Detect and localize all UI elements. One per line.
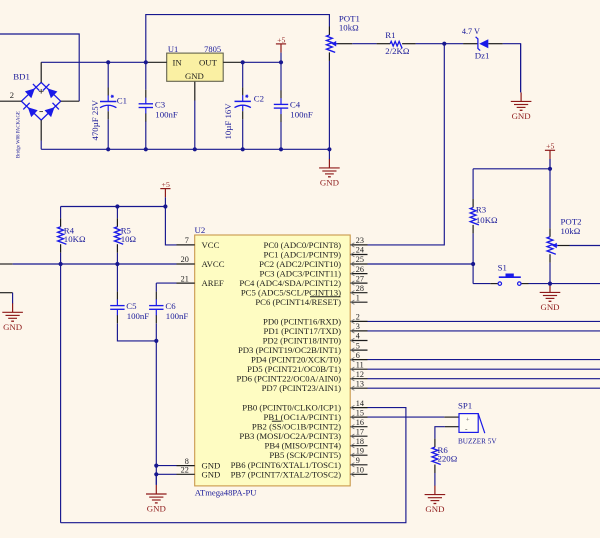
svg-text:17: 17	[356, 427, 364, 436]
svg-text:PB7 (PCINT7/XTAL2/TOSC2): PB7 (PCINT7/XTAL2/TOSC2)	[231, 469, 342, 479]
svg-text:C4: C4	[290, 100, 301, 110]
U2 pin 19 PB5	[269, 446, 367, 460]
capacitor C3 100nF	[139, 62, 178, 149]
op-amp U2 body ATmega48PA-PU	[195, 225, 351, 497]
wire R3 column	[472, 169, 474, 284]
ground R6	[425, 486, 446, 515]
svg-text:PD0 (PCINT16/RXD): PD0 (PCINT16/RXD)	[263, 316, 341, 326]
svg-text:PB2 (SS/OC1B/PCINT2): PB2 (SS/OC1B/PCINT2)	[252, 422, 341, 432]
U2 pin 10 PB7	[231, 466, 368, 480]
svg-text:PC1 (ADC1/PCINT9): PC1 (ADC1/PCINT9)	[264, 250, 342, 260]
svg-text:BD1: BD1	[13, 72, 30, 82]
svg-text:5: 5	[356, 341, 360, 350]
svg-text:C1: C1	[117, 95, 127, 105]
wire unregulated rail to U1 IN	[41, 61, 146, 63]
svg-text:100nF: 100nF	[155, 109, 178, 119]
wire R1 to Dz1	[416, 43, 464, 45]
svg-text:GND: GND	[3, 322, 22, 332]
capacitor C2 10uF 16V	[223, 62, 264, 149]
svg-text:GND: GND	[320, 178, 339, 188]
svg-text:+: +	[466, 416, 470, 423]
wire R6 to GND	[434, 473, 436, 486]
U2 pin 11 PD5	[247, 360, 367, 374]
buzzer SP1	[458, 400, 497, 445]
wire junction dots	[59, 42, 553, 477]
svg-text:OUT: OUT	[199, 57, 218, 67]
U2 pin 6 PD4	[251, 351, 368, 365]
svg-text:10KΩ: 10KΩ	[476, 215, 498, 225]
wire PD4 to right edge	[368, 359, 600, 361]
U2 pin 14 PB0	[242, 399, 367, 413]
zener diode Dz1 4.7V	[462, 27, 503, 60]
svg-text:PB4 (MISO/PCINT4): PB4 (MISO/PCINT4)	[264, 441, 341, 451]
capacitor C5 100nF	[110, 264, 149, 323]
U2 pin 25 PC2	[259, 255, 367, 269]
U2 pin 5 PD3	[238, 341, 368, 355]
U2 pin 15 PB1	[264, 408, 368, 422]
svg-text:AREF: AREF	[202, 278, 224, 288]
ground left edge	[2, 303, 23, 332]
wire U1 GND pin to rail	[194, 81, 196, 149]
wire SP1 minus to R6	[435, 427, 459, 439]
svg-text:PC4 (ADC4/SDA/PCINT12): PC4 (ADC4/SDA/PCINT12)	[239, 278, 341, 288]
wire Dz1 to GND corner	[503, 44, 521, 92]
svg-text:BUZZER 5V: BUZZER 5V	[458, 437, 497, 445]
U2 pin 16 PB2	[252, 418, 368, 432]
wire R4 column	[60, 207, 62, 523]
svg-text:10µF 16V: 10µF 16V	[223, 103, 233, 140]
wire PD5 to right edge	[368, 368, 600, 370]
svg-text:2: 2	[10, 90, 14, 100]
power +5 at POT2	[545, 142, 555, 169]
wire +5 stub POT2	[549, 159, 551, 169]
resistor R6 220R	[432, 439, 458, 473]
U2 pin 4 PD2	[263, 332, 368, 346]
svg-text:AVCC: AVCC	[202, 259, 225, 269]
wire left GND stub	[0, 293, 13, 304]
U2 pin 26 PC3	[260, 265, 368, 279]
svg-text:PB0 (PCINT0/CLKO/ICP1): PB0 (PCINT0/CLKO/ICP1)	[242, 403, 341, 413]
wire GND pin 22	[156, 473, 176, 475]
svg-text:16: 16	[356, 418, 364, 427]
svg-text:PD4 (PCINT20/XCK/T0): PD4 (PCINT20/XCK/T0)	[251, 355, 341, 365]
U2 pin 28 PC5	[241, 284, 368, 298]
U2 pin 18 PB4	[264, 437, 367, 451]
svg-text:18: 18	[356, 437, 364, 446]
svg-text:1: 1	[356, 293, 360, 302]
wire AREF to C6	[156, 283, 176, 292]
power +5 at C4	[276, 35, 286, 62]
U2 pin 12 PD6	[237, 370, 368, 384]
svg-text:PD5 (PCINT21/OC0B/T1): PD5 (PCINT21/OC0B/T1)	[247, 364, 341, 374]
svg-text:100nF: 100nF	[290, 109, 313, 119]
U2 pin 2 PD0	[263, 313, 367, 327]
wire PD1 to right edge	[368, 330, 600, 332]
svg-text:U1: U1	[168, 44, 178, 54]
svg-text:+5: +5	[162, 180, 170, 189]
svg-text:10kΩ: 10kΩ	[561, 226, 581, 236]
wire PB0 loop to AVCC net	[61, 408, 406, 523]
svg-text:PD7 (PCINT23/AIN1): PD7 (PCINT23/AIN1)	[262, 383, 341, 393]
potentiometer POT1 10k	[327, 14, 360, 61]
svg-text:VCC: VCC	[202, 240, 220, 250]
svg-text:PD2 (PCINT18/INT0): PD2 (PCINT18/INT0)	[263, 336, 342, 346]
U2 pin 3 PD1	[264, 322, 368, 336]
U2 pin 7 VCC	[177, 236, 220, 250]
U2 pin 17 PB3	[239, 427, 367, 441]
svg-text:100nF: 100nF	[127, 311, 150, 321]
wire node PC2 to R3/S1 junction	[368, 263, 474, 265]
svg-text:8: 8	[185, 457, 189, 466]
U2 pin 23 PC0	[264, 236, 368, 250]
resistor R5 10R	[115, 218, 137, 252]
svg-text:10Ω: 10Ω	[121, 234, 137, 244]
capacitor C1 470uF 25V	[90, 62, 127, 149]
svg-text:6: 6	[356, 351, 360, 360]
svg-text:+5: +5	[277, 35, 285, 44]
svg-text:15: 15	[356, 408, 364, 417]
svg-text:4.7 V: 4.7 V	[462, 27, 480, 36]
svg-text:4: 4	[356, 332, 360, 341]
svg-text:GND: GND	[147, 504, 166, 514]
svg-text:C3: C3	[155, 100, 166, 110]
svg-text:2/2KΩ: 2/2KΩ	[385, 46, 410, 56]
svg-text:24: 24	[356, 246, 364, 255]
svg-text:PD6 (PCINT22/OC0A/AIN0): PD6 (PCINT22/OC0A/AIN0)	[237, 374, 342, 384]
power +5 above VCC rail	[160, 180, 170, 207]
svg-text:28: 28	[356, 284, 364, 293]
U2 pin 13 PD7	[262, 379, 368, 393]
ground Dz1	[511, 44, 532, 121]
push button S1	[498, 263, 521, 286]
svg-text:7: 7	[185, 236, 189, 245]
svg-text:C6: C6	[165, 301, 176, 311]
wire PB1 to SP1 plus	[368, 416, 460, 418]
wire AC input loop top-left	[0, 34, 79, 101]
wire S1 row to right edge	[473, 283, 600, 285]
svg-text:GND: GND	[202, 469, 221, 479]
svg-text:PC3 (ADC3/PCINT11): PC3 (ADC3/PCINT11)	[260, 269, 342, 279]
wire +5 rail above R4/R5	[61, 206, 166, 208]
U2 pin 20 AVCC	[177, 255, 225, 269]
wire POT1 top feed	[146, 15, 330, 63]
svg-text:21: 21	[181, 274, 189, 283]
svg-text:220Ω: 220Ω	[438, 453, 458, 463]
svg-text:2: 2	[356, 313, 360, 322]
wire POT1 wiper to R1	[337, 43, 377, 45]
svg-text:100nF: 100nF	[166, 311, 189, 321]
svg-text:11: 11	[356, 360, 364, 369]
U2 pin SS overline	[272, 420, 282, 422]
wire U1 OUT to +5 node	[243, 61, 281, 63]
svg-text:27: 27	[356, 274, 364, 283]
svg-text:23: 23	[356, 236, 364, 245]
svg-text:C5: C5	[126, 301, 137, 311]
svg-text:10KΩ: 10KΩ	[64, 234, 86, 244]
svg-text:10: 10	[356, 466, 364, 475]
svg-text:22: 22	[181, 466, 189, 475]
svg-text:GND: GND	[425, 504, 444, 514]
svg-text:U2: U2	[195, 225, 206, 235]
wire node PC0 to R1/Dz1 junction	[368, 44, 445, 245]
U2 pin 1 PC6	[255, 293, 367, 307]
wire POT2 column	[549, 169, 551, 284]
ground S1/POT2	[540, 283, 561, 312]
svg-text:Dz1: Dz1	[475, 51, 490, 61]
resistor R1 2/2K	[377, 30, 416, 56]
svg-text:PB5 (SCK/PCINT5): PB5 (SCK/PCINT5)	[269, 450, 341, 460]
svg-text:12: 12	[356, 370, 364, 379]
svg-text:+5: +5	[546, 142, 554, 151]
U2 pin 8 GND	[177, 457, 221, 471]
svg-text:PC0 (ADC0/PCINT8): PC0 (ADC0/PCINT8)	[264, 240, 342, 250]
wire C6 column down to GND	[155, 323, 157, 485]
U2 pin 9 PB6	[231, 456, 368, 470]
wire ground rail (power section)	[41, 148, 329, 150]
svg-text:25: 25	[356, 255, 364, 264]
wire GND pin 8	[156, 465, 176, 467]
potentiometer POT2 10k	[547, 217, 581, 263]
U2 pin 21 AREF	[177, 274, 224, 288]
svg-text:19: 19	[356, 446, 364, 455]
svg-text:3: 3	[356, 322, 360, 331]
wire PD6 to right edge	[368, 378, 600, 380]
svg-text:R3: R3	[476, 204, 487, 214]
svg-text:S1: S1	[498, 263, 507, 273]
bridge rectifier BD1	[0, 62, 79, 158]
svg-text:7805: 7805	[204, 44, 221, 54]
wire PD0 to right edge	[368, 320, 600, 322]
capacitor C6 100nF	[149, 292, 188, 324]
svg-text:26: 26	[356, 265, 364, 274]
wire AVCC row	[0, 263, 177, 265]
svg-text:PB6 (PCINT6/XTAL1/TOSC1): PB6 (PCINT6/XTAL1/TOSC1)	[231, 460, 342, 470]
svg-text:GND: GND	[185, 71, 204, 81]
U2 pin RESET overline	[310, 296, 341, 298]
svg-text:PD1 (PCINT17/TXD): PD1 (PCINT17/TXD)	[264, 326, 342, 336]
svg-text:C2: C2	[254, 94, 264, 104]
ground power rail	[319, 149, 340, 187]
wire R5 column	[116, 207, 118, 265]
wire +5 corner down to VCC pin	[165, 207, 176, 245]
svg-text:IN: IN	[173, 57, 183, 67]
wire POT1 bottom to ground rail	[328, 61, 330, 149]
svg-text:10kΩ: 10kΩ	[339, 23, 359, 33]
U2 pin 27 PC4	[239, 274, 367, 288]
svg-text:PC2 (ADC2/PCINT10): PC2 (ADC2/PCINT10)	[259, 259, 341, 269]
svg-text:ATmega48PA-PU: ATmega48PA-PU	[195, 487, 258, 497]
svg-text:GND: GND	[512, 111, 531, 121]
svg-text:GND: GND	[540, 302, 559, 312]
wire C5 bottom to C6 column	[117, 323, 156, 341]
U2 pin 24 PC1	[264, 246, 368, 260]
wire PD7 to right edge	[368, 387, 600, 389]
wire +5 rail to R3	[473, 168, 550, 170]
ground U2/C6	[146, 474, 167, 513]
svg-text:SP1: SP1	[458, 400, 472, 410]
svg-text:PB1 (OC1A/PCINT1): PB1 (OC1A/PCINT1)	[264, 412, 342, 422]
svg-text:14: 14	[356, 399, 364, 408]
U2 pin 22 GND	[177, 466, 221, 480]
resistor R4 10K	[58, 218, 86, 252]
svg-text:Bridge W08 PACKAGE: Bridge W08 PACKAGE	[17, 111, 22, 158]
svg-text:13: 13	[356, 379, 364, 388]
svg-text:470µF 25V: 470µF 25V	[90, 99, 100, 140]
capacitor C4 100nF	[274, 62, 313, 149]
svg-text:9: 9	[356, 456, 360, 465]
svg-text:R1: R1	[385, 30, 395, 40]
svg-text:PC6 (PCINT14/RESET): PC6 (PCINT14/RESET)	[255, 297, 341, 307]
resistor R3 10K	[470, 199, 498, 233]
wire POT2 wiper to right edge	[557, 245, 600, 247]
svg-text:PD3 (PCINT19/OC2B/INT1): PD3 (PCINT19/OC2B/INT1)	[238, 345, 341, 355]
svg-text:20: 20	[181, 255, 189, 264]
regulator U1 7805	[146, 44, 243, 81]
svg-text:PB3 (MOSI/OC2A/PCINT3): PB3 (MOSI/OC2A/PCINT3)	[239, 431, 341, 441]
